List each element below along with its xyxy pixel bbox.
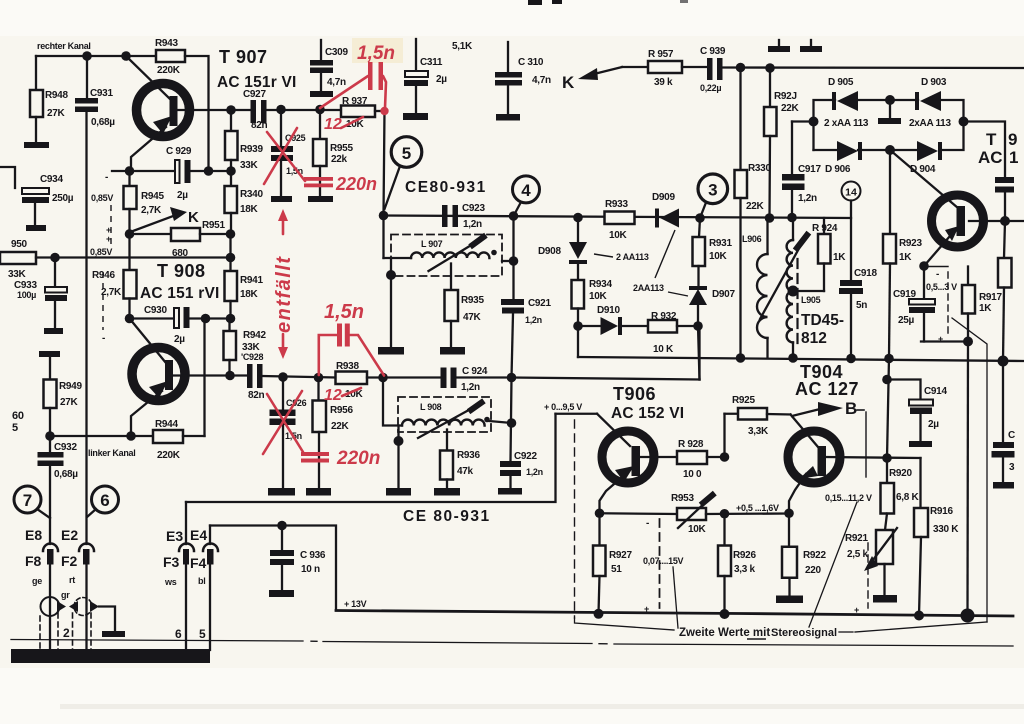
resistor R938 <box>336 372 441 385</box>
node <box>882 375 892 385</box>
svg-text:2,5 k: 2,5 k <box>847 549 868 560</box>
svg-text:5: 5 <box>12 422 18 434</box>
svg-text:27K: 27K <box>47 108 66 119</box>
wire bus start <box>577 326 579 357</box>
node <box>720 452 730 462</box>
node <box>594 609 604 619</box>
svg-text:C931: C931 <box>90 88 113 99</box>
svg-text:D907: D907 <box>712 289 735 300</box>
svg-text:0,68µ: 0,68µ <box>91 117 115 128</box>
svg-text:C917: C917 <box>798 164 821 175</box>
node <box>507 418 517 428</box>
node <box>225 371 235 381</box>
svg-text:R 928: R 928 <box>678 439 704 450</box>
svg-text:10K: 10K <box>709 251 728 262</box>
ground <box>102 631 125 637</box>
capacitor C918 <box>839 280 863 358</box>
coil L906 <box>757 218 768 358</box>
svg-text:C923: C923 <box>462 203 485 214</box>
wire L908 left ground <box>397 426 399 489</box>
resistor R924 <box>793 218 831 291</box>
svg-text:0,5...3 V: 0,5...3 V <box>926 282 957 292</box>
wire R917 node down rail <box>966 342 969 616</box>
resistor R923 <box>883 150 896 358</box>
svg-text:47K: 47K <box>463 312 482 323</box>
node <box>720 609 730 619</box>
svg-text:R926: R926 <box>733 550 756 561</box>
node <box>125 166 135 176</box>
svg-text:3: 3 <box>708 181 717 200</box>
svg-text:T 908: T 908 <box>157 261 206 281</box>
svg-text:T: T <box>986 130 997 149</box>
svg-text:R942: R942 <box>243 330 266 341</box>
rail +13V <box>336 611 1013 617</box>
capacitor C932 <box>38 436 64 544</box>
svg-text:R92J: R92J <box>774 91 797 102</box>
node <box>998 356 1009 367</box>
svg-text:5,1K: 5,1K <box>452 41 473 52</box>
svg-text:+: + <box>854 605 859 615</box>
svg-text:C 939: C 939 <box>700 46 726 57</box>
capacitor C923 <box>442 205 458 227</box>
wire emitter row <box>112 170 175 172</box>
wire D907 node down <box>698 326 700 380</box>
dashed bracket T906 left <box>574 420 576 618</box>
wire <box>622 66 648 68</box>
trimmer R953 <box>677 495 789 528</box>
resistor R927 <box>593 513 606 613</box>
svg-text:ws: ws <box>164 577 177 587</box>
wire base diagonal T905 <box>890 150 958 208</box>
node junction <box>121 51 131 61</box>
svg-text:R956: R956 <box>330 405 353 416</box>
svg-text:0,85V: 0,85V <box>90 247 112 257</box>
svg-text:10K: 10K <box>609 230 628 241</box>
node <box>386 270 396 280</box>
node <box>695 213 705 223</box>
node <box>788 353 798 363</box>
svg-text:R939: R939 <box>240 144 263 155</box>
ground <box>909 441 932 447</box>
svg-text:rt: rt <box>69 575 75 585</box>
node <box>125 229 135 239</box>
connector circle 7 <box>14 486 50 518</box>
svg-text:+0,5 ...1,6V: +0,5 ...1,6V <box>736 503 779 513</box>
svg-text:-: - <box>646 518 649 529</box>
svg-text:entfällt: entfällt <box>273 255 295 333</box>
plug F3 <box>179 502 194 650</box>
node <box>573 321 583 331</box>
node <box>846 354 856 364</box>
diode D910 <box>578 317 648 335</box>
wire T907 output row <box>231 109 251 111</box>
svg-text:C918: C918 <box>854 268 877 279</box>
wire <box>263 376 336 378</box>
svg-text:R951: R951 <box>202 220 225 231</box>
yellow highlight <box>352 38 403 63</box>
svg-text:82n: 82n <box>248 390 265 401</box>
svg-text:1,2n: 1,2n <box>461 382 480 393</box>
annotation lines Zweite Werte <box>575 502 988 632</box>
svg-text:AC 152 VI: AC 152 VI <box>611 405 684 422</box>
red arrow down entfaellt <box>278 334 288 359</box>
wire mid row <box>36 256 231 258</box>
node <box>809 117 819 127</box>
svg-text:R931: R931 <box>709 238 732 249</box>
node <box>277 521 287 531</box>
svg-text:E4: E4 <box>190 527 207 543</box>
node <box>125 314 135 324</box>
svg-text:C921: C921 <box>528 298 551 309</box>
dashed bracket 007-15V <box>659 519 661 608</box>
svg-text:C927: C927 <box>243 89 266 100</box>
svg-text:1,2n: 1,2n <box>525 315 542 325</box>
svg-text:R916: R916 <box>930 506 953 517</box>
wire +0..9,5V row <box>556 414 631 446</box>
circle 5 <box>385 137 422 209</box>
svg-text:C 929: C 929 <box>166 146 192 157</box>
svg-text:K: K <box>188 209 199 226</box>
node <box>378 373 388 383</box>
svg-text:C934: C934 <box>40 174 63 185</box>
svg-text:0,68µ: 0,68µ <box>54 469 78 480</box>
wire <box>190 317 231 319</box>
wire L908 right <box>489 421 512 423</box>
svg-text:E8: E8 <box>25 527 42 543</box>
page crop marks top <box>528 0 688 5</box>
svg-text:5: 5 <box>402 144 411 163</box>
resistor R936 <box>440 430 453 489</box>
wire emitter row T908 <box>50 435 153 437</box>
svg-text:R953: R953 <box>671 493 694 504</box>
capacitor C930 <box>174 307 190 328</box>
test point circle 14 <box>842 182 861 281</box>
ground <box>496 114 520 121</box>
capacitor C310 <box>495 42 522 114</box>
red capacitor 1,5n mid <box>319 324 384 376</box>
node <box>201 314 211 324</box>
connector circle 6 <box>87 486 119 517</box>
capacitor C939 <box>707 58 723 80</box>
svg-text:linker Kanal: linker Kanal <box>88 448 135 458</box>
wire T906 base feed <box>698 326 700 380</box>
node <box>45 431 55 441</box>
svg-text:680: 680 <box>172 248 189 259</box>
resistor R955 <box>313 110 327 196</box>
svg-text:2µ: 2µ <box>174 334 185 345</box>
capacitor C927 <box>251 100 267 123</box>
svg-text:2µ: 2µ <box>928 419 939 430</box>
diode D909 <box>655 209 679 228</box>
wire T908 collector <box>173 374 230 376</box>
svg-text:'C928: 'C928 <box>241 352 263 362</box>
resistor R925 <box>725 408 791 457</box>
svg-text:R935: R935 <box>461 295 484 306</box>
svg-text:R921: R921 <box>845 533 868 544</box>
resistor R951 <box>130 228 231 241</box>
svg-text:12: 12 <box>324 116 342 133</box>
svg-text:10K: 10K <box>688 524 707 535</box>
node <box>204 166 214 176</box>
svg-text:51: 51 <box>611 564 622 575</box>
svg-text:T906: T906 <box>613 384 656 404</box>
svg-text:D 905: D 905 <box>828 77 854 88</box>
node junction <box>82 51 92 61</box>
svg-text:R955: R955 <box>330 143 353 154</box>
wire top rail to right edge <box>723 66 1024 69</box>
ground <box>440 347 465 355</box>
svg-text:rechter Kanal: rechter Kanal <box>37 41 91 51</box>
ground <box>306 488 331 496</box>
svg-text:R922: R922 <box>803 550 826 561</box>
node <box>1000 216 1010 226</box>
red capacitor 1,5n top <box>320 62 386 108</box>
svg-text:R917: R917 <box>979 292 1002 303</box>
capacitor C311 electrolytic <box>404 39 428 113</box>
svg-text:C922: C922 <box>514 451 537 462</box>
svg-text:2µ: 2µ <box>436 74 447 85</box>
node <box>693 321 703 331</box>
red X over C925 <box>264 128 305 184</box>
svg-text:R943: R943 <box>155 38 178 49</box>
node <box>379 211 389 221</box>
svg-text:R938: R938 <box>336 361 359 372</box>
svg-text:C 936: C 936 <box>300 550 326 561</box>
ground <box>271 196 292 202</box>
svg-text:4: 4 <box>521 181 531 200</box>
svg-text:5n: 5n <box>856 300 867 311</box>
plug F2 <box>79 544 94 652</box>
ground <box>268 488 295 496</box>
capacitor C921 <box>501 216 524 378</box>
node <box>787 213 797 223</box>
coil L908 arrow <box>418 403 482 439</box>
coil L908 <box>402 417 490 426</box>
svg-text:82n: 82n <box>251 120 268 131</box>
svg-text:220n: 220n <box>335 174 377 194</box>
svg-text:+: + <box>106 234 111 244</box>
svg-text:R945: R945 <box>141 191 164 202</box>
svg-text:2µ: 2µ <box>177 190 188 201</box>
svg-text:1,2n: 1,2n <box>798 193 817 204</box>
resistor R934 <box>572 280 585 326</box>
svg-text:0,15...11,2 V: 0,15...11,2 V <box>825 493 872 503</box>
svg-text:22K: 22K <box>331 421 350 432</box>
ground <box>873 595 897 603</box>
red strike R937 10K <box>341 117 363 128</box>
svg-text:1,2n: 1,2n <box>463 219 482 230</box>
svg-text:10 0: 10 0 <box>683 469 702 480</box>
wire T908 output row <box>230 374 247 376</box>
svg-text:220K: 220K <box>157 65 181 76</box>
wire T905 collector <box>969 220 1024 222</box>
svg-text:14: 14 <box>845 187 857 199</box>
svg-text:E3: E3 <box>166 528 183 544</box>
capacitor C936 <box>270 526 294 591</box>
svg-text:1K: 1K <box>979 303 992 314</box>
resistor R926 <box>718 514 731 614</box>
svg-text:4,7n: 4,7n <box>327 77 346 88</box>
capacitor C919 electrolytic <box>909 266 935 342</box>
wire <box>457 376 512 378</box>
wire E2 long vertical <box>85 112 87 544</box>
trimmer R921 <box>864 528 897 595</box>
dashed leads into bar <box>40 613 91 650</box>
svg-text:C: C <box>1008 430 1015 441</box>
transistor T907 <box>126 56 190 171</box>
svg-text:AC: AC <box>978 148 1003 167</box>
svg-text:812: 812 <box>801 330 827 347</box>
svg-text:950: 950 <box>11 239 28 250</box>
resistor R956 <box>313 378 327 489</box>
svg-text:47k: 47k <box>457 466 474 477</box>
capacitor C924 <box>441 368 457 389</box>
svg-text:2AA113: 2AA113 <box>633 283 664 293</box>
svg-text:7: 7 <box>23 491 32 510</box>
annotation thin diagonal <box>952 318 987 622</box>
capacitor C926 <box>270 378 296 489</box>
svg-text:-: - <box>936 269 939 280</box>
ground <box>310 91 333 97</box>
node <box>884 354 894 364</box>
resistor R949 <box>44 357 57 436</box>
svg-text:0,85V: 0,85V <box>91 193 113 203</box>
capacitor C913 <box>992 361 1015 482</box>
node <box>226 229 236 239</box>
node <box>885 95 895 105</box>
svg-text:250µ: 250µ <box>52 193 74 204</box>
svg-text:6: 6 <box>175 627 182 641</box>
wire to T906 input <box>512 378 700 380</box>
svg-text:+: + <box>938 334 943 344</box>
capacitor C912 <box>995 177 1014 221</box>
svg-text:CE 80-931: CE 80-931 <box>403 508 491 525</box>
resistor R941 <box>225 234 238 319</box>
svg-text:C919: C919 <box>893 289 916 300</box>
resistor R948 <box>30 56 43 142</box>
svg-text:R920: R920 <box>889 468 912 479</box>
svg-text:220: 220 <box>805 565 822 576</box>
svg-text:3,3 k: 3,3 k <box>734 564 755 575</box>
node <box>595 508 605 518</box>
svg-text:2: 2 <box>63 626 70 640</box>
svg-text:ge: ge <box>32 576 42 586</box>
svg-text:D909: D909 <box>652 192 675 203</box>
node <box>509 211 519 221</box>
svg-text:R 932: R 932 <box>651 311 677 322</box>
svg-text:22k: 22k <box>331 154 348 165</box>
capacitor C929 <box>175 160 191 183</box>
ground <box>44 328 63 334</box>
svg-text:12: 12 <box>324 387 342 404</box>
resistor R931 <box>693 218 706 287</box>
wire C914 branch <box>887 358 921 459</box>
svg-text:2,7K: 2,7K <box>101 287 122 298</box>
wire <box>267 109 342 111</box>
svg-text:220K: 220K <box>157 450 181 461</box>
svg-text:R941: R941 <box>240 275 263 286</box>
resistor R917 <box>962 267 975 342</box>
svg-text:33K: 33K <box>240 160 259 171</box>
diode D905 <box>832 91 858 111</box>
wire node 5 vertical <box>384 111 385 216</box>
svg-text:R934: R934 <box>589 279 612 290</box>
svg-text:R925: R925 <box>732 395 755 406</box>
coil L905 <box>787 218 793 359</box>
capacitor C928 <box>247 364 263 388</box>
wire L908 input <box>383 378 402 426</box>
chassis black bar <box>11 649 210 663</box>
svg-text:2 AA113: 2 AA113 <box>616 252 649 262</box>
svg-text:R949: R949 <box>59 381 82 392</box>
svg-text:Stereosignal: Stereosignal <box>771 627 837 639</box>
svg-text:L906: L906 <box>742 234 762 244</box>
resistor R340 <box>225 171 238 234</box>
svg-text:0,22µ: 0,22µ <box>700 83 721 93</box>
node <box>765 213 775 223</box>
svg-text:1: 1 <box>1009 148 1018 167</box>
svg-text:3,3K: 3,3K <box>748 426 769 437</box>
transistor T906 <box>600 431 655 513</box>
resistor R920 <box>881 458 895 530</box>
svg-text:AC 151 rVI: AC 151 rVI <box>140 285 220 302</box>
svg-text:R 924: R 924 <box>812 223 838 234</box>
capacitor C934 electrolytic <box>0 167 49 225</box>
circle 3 <box>698 174 728 218</box>
wire +13V frame <box>210 526 336 611</box>
resistor R957 <box>648 61 707 73</box>
node <box>394 436 404 446</box>
node <box>885 145 895 155</box>
svg-text:L 908: L 908 <box>420 402 442 412</box>
svg-text:C309: C309 <box>325 47 348 58</box>
svg-text:F8: F8 <box>25 553 42 569</box>
svg-text:gr: gr <box>61 590 70 600</box>
wire <box>191 170 232 172</box>
svg-text:D910: D910 <box>597 305 620 316</box>
ground <box>24 142 49 148</box>
svg-text:18K: 18K <box>240 289 259 300</box>
svg-text:R933: R933 <box>605 199 628 210</box>
dashed bracket 0,85V <box>110 205 112 248</box>
svg-text:R927: R927 <box>609 550 632 561</box>
svg-text:-: - <box>105 172 108 183</box>
svg-text:1,5n: 1,5n <box>324 301 364 323</box>
svg-text:R330: R330 <box>748 163 771 174</box>
svg-text:10 K: 10 K <box>653 344 674 355</box>
svg-text:Zweite Werte mit: Zweite Werte mit <box>679 627 770 639</box>
node L905 tap <box>788 286 799 297</box>
coil L907 dashed box <box>391 235 502 277</box>
svg-text:+ 0...9,5 V: + 0...9,5 V <box>544 402 582 412</box>
red capacitor 220n top <box>304 177 333 187</box>
node <box>784 508 794 518</box>
red X over C926 <box>263 391 303 454</box>
wire long row y=216 <box>384 216 852 219</box>
svg-text:2,7K: 2,7K <box>141 205 162 216</box>
svg-text:10 n: 10 n <box>301 564 320 575</box>
svg-text:F4: F4 <box>190 555 207 571</box>
svg-text:TD45-: TD45- <box>801 312 844 329</box>
wire T907 collector <box>178 109 232 111</box>
chassis stub 1 <box>768 40 790 52</box>
svg-text:3: 3 <box>1009 462 1015 473</box>
thin baseline <box>11 640 1013 647</box>
svg-text:R946: R946 <box>92 270 115 281</box>
diode D908 <box>569 218 587 281</box>
chassis stub 2 <box>800 40 822 52</box>
annotation lines 2AA113 <box>594 230 688 296</box>
